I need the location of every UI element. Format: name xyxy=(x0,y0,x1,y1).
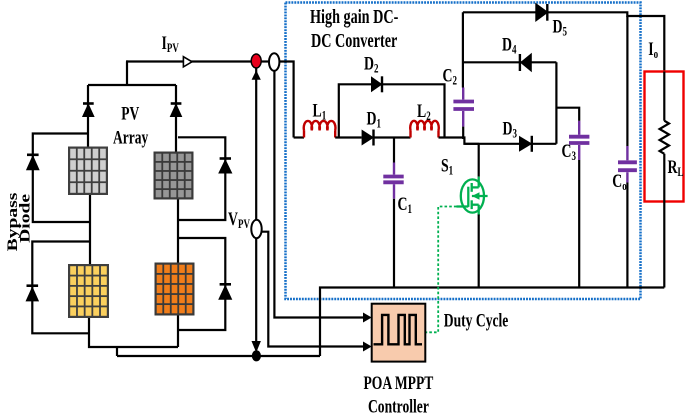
arrow into controller lower xyxy=(363,342,372,352)
inductor L2 xyxy=(410,121,439,138)
arrow IPV open arrowhead xyxy=(183,57,192,67)
diode top-right PV string xyxy=(171,85,182,152)
svg-text:DC Converter: DC Converter xyxy=(311,30,398,52)
svg-text:Array: Array xyxy=(113,127,148,148)
svg-text:D2: D2 xyxy=(364,52,378,76)
wire D2 branch xyxy=(339,84,445,137)
wire D3 segment xyxy=(464,143,556,145)
svg-text:RL: RL xyxy=(668,156,684,180)
diode D5 xyxy=(536,4,548,21)
wire PV top rail to IPV line xyxy=(125,62,128,86)
capacitor C3 xyxy=(569,121,589,288)
wire converter main line segment A xyxy=(294,136,304,138)
wire RL bottom xyxy=(663,154,665,288)
svg-text:C1: C1 xyxy=(398,193,412,217)
svg-text:S1: S1 xyxy=(441,154,453,178)
svg-text:Duty Cycle: Duty Cycle xyxy=(444,309,509,331)
node red dot xyxy=(251,54,261,68)
svg-text:VPV: VPV xyxy=(228,208,250,232)
wire RL top xyxy=(663,72,665,121)
wire right vertical D4 to D3 xyxy=(555,62,557,144)
wire top rail with D5 xyxy=(463,12,664,71)
diode top-left PV string xyxy=(83,85,94,147)
transistor S1 MOSFET xyxy=(457,144,488,216)
capacitor C2 xyxy=(453,88,474,140)
wire ammeter to upper controller arrow xyxy=(274,71,365,318)
capacitor Co xyxy=(618,146,637,288)
wire duty cycle green dashed xyxy=(425,207,457,333)
wire D1 to L2 xyxy=(374,136,411,138)
wire C2/D4 left vertical xyxy=(462,12,464,87)
svg-text:D3: D3 xyxy=(503,117,518,141)
PWM waveform glyph xyxy=(374,315,423,344)
inductor L1 xyxy=(304,121,336,138)
svg-text:C2: C2 xyxy=(443,64,457,88)
wire left string between panels xyxy=(89,195,91,264)
svg-text:L2: L2 xyxy=(417,100,431,124)
svg-text:Io: Io xyxy=(648,38,658,62)
load box (red) xyxy=(645,72,684,202)
wire right string between panels xyxy=(177,200,179,263)
diode bypass lower-left xyxy=(27,242,91,334)
wire L2 to jog xyxy=(439,138,480,144)
svg-text:Controller: Controller xyxy=(368,396,429,415)
wire PV top rail xyxy=(88,84,176,86)
diode D1 xyxy=(362,130,374,146)
converter boundary dashed box xyxy=(286,3,641,300)
meter circle VPV xyxy=(251,220,261,238)
wire Co branch xyxy=(626,16,628,146)
svg-text:D4: D4 xyxy=(502,34,517,58)
PV panel top-left (light gray) xyxy=(68,147,108,196)
PV panel bottom-left (yellow) xyxy=(68,264,109,318)
svg-text:High gain DC-: High gain DC- xyxy=(310,6,399,28)
diode bypass upper-right xyxy=(178,137,231,220)
wire converter bottom rail xyxy=(320,288,664,357)
arrow into controller upper xyxy=(363,313,372,323)
meter circle ammeter xyxy=(261,53,279,71)
capacitor C1 xyxy=(383,138,403,288)
resistor RL zigzag xyxy=(660,121,669,154)
wire S1 source to bottom xyxy=(478,215,480,288)
node black junction dot xyxy=(252,350,261,361)
wire VPV tap to lower controller arrow xyxy=(262,232,366,347)
wire PV bottom rail xyxy=(89,316,320,357)
wire L1 to D1 xyxy=(335,136,361,138)
diode bypass lower-right xyxy=(178,238,231,330)
diode D4 (points left) xyxy=(520,54,531,71)
diode D2 xyxy=(371,76,383,92)
svg-text:D5: D5 xyxy=(553,15,568,39)
svg-text:PV: PV xyxy=(121,103,139,124)
controller box POA MPPT xyxy=(372,304,426,362)
svg-text:Diode: Diode xyxy=(17,193,33,242)
diode bypass upper-left xyxy=(27,134,90,223)
svg-text:D1: D1 xyxy=(367,107,381,131)
PV panel top-right (gray) xyxy=(154,152,194,200)
svg-text:POA MPPT: POA MPPT xyxy=(364,372,434,394)
wire C3 branch xyxy=(556,108,579,121)
wire ammeter to converter xyxy=(279,62,293,138)
wire VPV vertical with arrows xyxy=(252,68,261,353)
svg-text:IPV: IPV xyxy=(162,32,180,56)
wire D4 line xyxy=(463,61,557,63)
svg-text:Co: Co xyxy=(612,170,626,194)
diode D3 xyxy=(519,136,532,152)
svg-text:L1: L1 xyxy=(313,99,327,123)
PV panel bottom-right (orange) xyxy=(155,263,195,316)
wire IPV line xyxy=(126,60,252,62)
